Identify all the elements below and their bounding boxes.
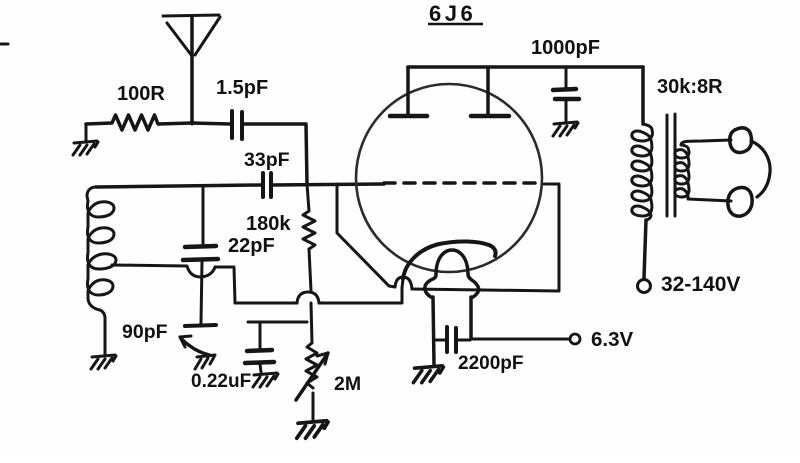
svg-text:2M: 2M: [334, 373, 361, 395]
svg-text:6.3V: 6.3V: [591, 328, 633, 351]
svg-text:90pF: 90pF: [122, 321, 168, 343]
svg-text:2200pF: 2200pF: [458, 353, 523, 374]
svg-text:1000pF: 1000pF: [531, 37, 600, 59]
svg-text:22pF: 22pF: [228, 235, 275, 257]
svg-text:32-140V: 32-140V: [661, 273, 740, 296]
svg-text:0.22uF: 0.22uF: [191, 371, 251, 392]
svg-text:6J6: 6J6: [429, 1, 476, 26]
svg-text:30k:8R: 30k:8R: [657, 76, 723, 98]
svg-text:180k: 180k: [246, 213, 291, 235]
svg-text:33pF: 33pF: [244, 149, 290, 171]
svg-text:100R: 100R: [117, 83, 165, 105]
svg-text:1.5pF: 1.5pF: [216, 77, 268, 99]
